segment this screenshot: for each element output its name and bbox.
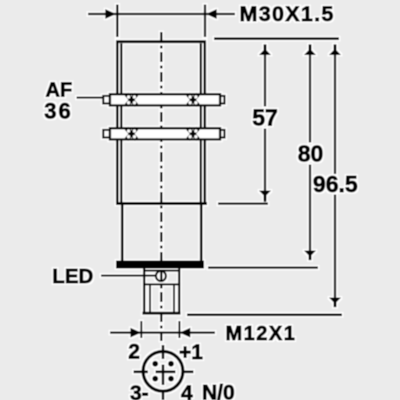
extension line for 96.5 — [187, 313, 342, 316]
pinout vertical centerline — [162, 345, 165, 400]
M12 connector outline — [144, 269, 179, 314]
hex nut 2: right chamfer tab — [218, 130, 225, 138]
hex nut 1: main body — [110, 94, 220, 105]
leader line from AF36 to nut — [77, 96, 104, 98]
svg-text:M30X1.5: M30X1.5 — [240, 2, 335, 26]
svg-text:N/0: N/0 — [202, 382, 235, 400]
hex nut 1: right hex-edge X mark — [188, 94, 198, 105]
pin dot top-right — [168, 361, 174, 367]
dimension 80: line lower segment with down arrow — [309, 165, 312, 252]
hex nut 1: left chamfer tab — [103, 96, 111, 104]
M12 inner thread line left — [149, 284, 151, 312]
dimension line M30X1.5 (top) — [88, 13, 235, 16]
M12 inner thread line right — [173, 284, 175, 312]
LED indicator circle — [156, 271, 166, 281]
lower body left wall — [121, 204, 124, 262]
arrowhead left (points right) — [105, 9, 116, 19]
extension line left of M30 dimension — [116, 5, 119, 38]
pin dot bottom-left — [152, 376, 158, 382]
centerline (vertical dash-dot axis) — [160, 32, 163, 341]
barrel top edge — [116, 40, 206, 43]
svg-text:4: 4 — [181, 382, 193, 400]
svg-text:+1: +1 — [179, 341, 203, 364]
barrel left outer wall (thread crest) — [116, 41, 119, 204]
svg-text:3-: 3- — [130, 382, 149, 400]
M12 connector thread-start divider — [143, 283, 180, 285]
extension line for 57 — [218, 202, 268, 205]
M12 connector collar line — [143, 270, 180, 272]
leader line from LED label — [101, 275, 156, 277]
dimension 80: line upper segment with up arrow — [309, 45, 312, 143]
hex nut 2: right hex-edge X mark — [188, 128, 198, 139]
svg-text:96.5: 96.5 — [313, 171, 358, 197]
svg-text:2: 2 — [128, 341, 140, 364]
barrel right outer wall (thread crest) — [203, 41, 206, 204]
connector pinout face circle — [143, 351, 183, 391]
hex nut 1: left hex-edge X mark — [127, 94, 137, 105]
dimension line M12X1 (bottom) — [110, 331, 215, 334]
svg-text:80: 80 — [298, 141, 324, 167]
dimension 96.5: line upper segment with up arrow — [334, 45, 337, 174]
bottom flange (solid) — [116, 261, 204, 269]
svg-text:57: 57 — [252, 105, 278, 131]
hex nut 1: right chamfer tab — [218, 96, 225, 104]
dimension 57: line upper segment with up arrow — [264, 45, 267, 107]
arrowhead left (points right) — [130, 328, 141, 338]
M12 connector bottom edge — [142, 312, 180, 315]
dimension 96.5: line lower segment with down arrow — [334, 195, 337, 299]
transition line at bottom of thread — [116, 202, 207, 205]
arrowhead right (points left) — [179, 328, 190, 338]
barrel right inner wall (thread root) — [200, 43, 203, 202]
pinout horizontal centerline — [134, 370, 194, 373]
svg-text:M12X1: M12X1 — [226, 323, 297, 345]
hex nut 2: left hex-edge X mark — [127, 128, 137, 139]
hex nut 2: left chamfer tab — [103, 130, 111, 138]
dimension 57: line lower segment with down arrow — [264, 129, 267, 203]
extension line for 80 — [208, 266, 318, 269]
barrel left inner wall (thread root) — [120, 43, 123, 202]
svg-text:36: 36 — [44, 99, 72, 124]
svg-text:LED: LED — [52, 265, 93, 288]
arrowhead right (points left) — [206, 9, 217, 19]
extension line left of M12 dimension — [140, 321, 142, 338]
extension line right of M12 dimension — [178, 321, 180, 338]
pin dot bottom-right — [168, 376, 174, 382]
lower body right wall — [200, 204, 203, 262]
pin dot top-left — [152, 361, 158, 367]
reference line at top of body (datum for 57/80/96.5) — [214, 37, 339, 40]
hex nut 2: main body — [110, 128, 220, 139]
extension line right of M30 dimension — [204, 5, 207, 38]
